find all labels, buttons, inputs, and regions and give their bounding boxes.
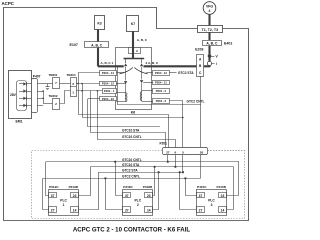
svg-text:T1, T2, T3: T1, T2, T3	[202, 28, 219, 32]
K6 left pole contact	[125, 58, 127, 63]
wire TB304-1 to P204-1	[76, 90, 102, 92]
wire P407 lower pins join	[37, 91, 43, 93]
wire P201-6 down	[175, 155, 177, 167]
connector P201	[163, 148, 208, 155]
svg-text:27: 27	[166, 150, 170, 154]
svg-text:2: 2	[55, 102, 57, 106]
wire P204-12 right GTC2 STA	[169, 72, 176, 74]
bus GTC2 CNTL	[43, 178, 201, 180]
wire bus tap to P201-26	[118, 66, 201, 147]
ground at TB601 wire	[47, 84, 49, 88]
svg-text:2: 2	[136, 49, 138, 53]
wire PLC1-23 to GTC10 STA	[79, 167, 91, 196]
svg-text:VFG: VFG	[206, 4, 213, 8]
svg-text:P318C: P318C	[123, 185, 133, 189]
svg-text:TB601: TB601	[49, 73, 58, 77]
wire PLC1-14 to GTC2 STA	[79, 172, 99, 209]
ACPC boundary box	[4, 8, 249, 221]
K6 contact bar	[124, 58, 145, 60]
wire row 114	[79, 73, 169, 147]
wire P204-3 right	[169, 101, 182, 148]
svg-text:2: 2	[137, 203, 139, 207]
svg-text:P415C: P415C	[197, 185, 207, 189]
wire P201-5 down	[182, 155, 184, 172]
pin P204-13	[100, 82, 117, 86]
wire PLC2-14 to GTC2 STA	[153, 172, 159, 209]
pin P204-3	[153, 99, 170, 104]
svg-text:P204 - 14: P204 - 14	[102, 71, 114, 75]
svg-text:P318B: P318B	[143, 185, 153, 189]
connector E203 A B C	[197, 55, 204, 77]
svg-text:P319C: P319C	[49, 185, 59, 189]
wire P201-26 down	[200, 155, 202, 178]
wire row 126	[88, 99, 161, 127]
svg-text:14: 14	[147, 208, 151, 212]
wire GTC10 CNTL to PLC1-37	[46, 162, 49, 196]
svg-text:A, B, C 1: A, B, C 1	[101, 61, 114, 65]
svg-text:26: 26	[200, 150, 204, 154]
K6 pin 2	[129, 48, 141, 54]
svg-text:27: 27	[51, 208, 55, 212]
svg-text:K6: K6	[131, 110, 136, 114]
wire P204-12 to contact	[146, 72, 152, 74]
svg-text:14: 14	[73, 208, 77, 212]
wire P204-14 left	[78, 72, 100, 74]
generator VFG	[203, 2, 216, 15]
relay K7	[127, 16, 139, 32]
svg-text:I: I	[216, 62, 217, 66]
K6 left aux contact	[125, 67, 127, 81]
svg-text:7: 7	[55, 81, 57, 85]
svg-text:P204 - 22: P204 - 22	[102, 97, 114, 101]
svg-text:GTC2 STA: GTC2 STA	[178, 71, 194, 75]
svg-text:23: 23	[147, 194, 151, 198]
svg-text:P204 - 2: P204 - 2	[156, 89, 167, 93]
wire GTC10 STA upper	[91, 91, 166, 147]
wire GTC2 CNTL to PLC3-37	[186, 178, 197, 195]
wire K3 to E107	[97, 30, 99, 42]
wire E401 down	[208, 46, 210, 67]
pin P204-2	[153, 89, 170, 94]
svg-text:P204 - 3: P204 - 3	[156, 99, 167, 103]
wire GTC10 CNTL to PLC3-23	[227, 162, 239, 196]
wire P204-22 left	[88, 98, 100, 100]
wire GTC10 CNTL upper	[98, 91, 176, 147]
K6 right coil	[141, 91, 143, 101]
wire GTC10 CNTL to PLC2-37	[116, 162, 123, 196]
diodes CR1-CR4	[19, 83, 23, 85]
connector P407	[32, 79, 38, 113]
svg-text:GTC10 STA: GTC10 STA	[122, 129, 140, 133]
svg-text:P407: P407	[33, 75, 41, 79]
wire P407 pin1 to TB601	[37, 83, 52, 85]
connector E401 A B C	[203, 41, 222, 46]
wire GTC2 STA to PLC3-27	[180, 172, 197, 209]
pin P204-14	[100, 71, 117, 76]
current sensor I	[207, 61, 211, 65]
wire P204-11 to aux	[143, 82, 152, 84]
svg-text:14: 14	[221, 208, 225, 212]
wire VFG to T1	[208, 14, 210, 25]
wire P204-2 to coil	[142, 90, 153, 92]
connector E107 A B C	[85, 42, 109, 48]
svg-text:GTC2 CNTL: GTC2 CNTL	[187, 99, 205, 103]
svg-text:E107: E107	[70, 43, 78, 47]
wire P201-26 dashed out	[208, 150, 245, 152]
svg-text:P204 - 12: P204 - 12	[155, 71, 167, 75]
pin P204-11	[153, 81, 170, 85]
svg-text:1: 1	[63, 203, 65, 207]
wire TB304-3 to P204-13	[76, 83, 99, 85]
voltage tap V	[208, 54, 212, 58]
pin P204-22	[100, 97, 117, 101]
wire E203 to V-line	[204, 65, 210, 67]
wire TB202 to TB304	[60, 91, 70, 104]
wire E203-C down	[200, 76, 202, 105]
svg-text:37: 37	[125, 194, 129, 198]
diode group bracket	[17, 81, 27, 111]
wire GTC2 CNTL to PLC2-27	[106, 178, 123, 209]
svg-text:EM1: EM1	[16, 120, 23, 124]
box EM1	[9, 71, 32, 119]
svg-text:P319B: P319B	[69, 185, 79, 189]
svg-text:23: 23	[73, 194, 77, 198]
wire GTC2 CNTL to PLC1-27	[43, 178, 49, 209]
terminal block T1 T2 T3	[198, 26, 223, 33]
wire K7 to K6 pin2	[132, 31, 134, 58]
contactor K6 box	[116, 48, 152, 110]
wire P204-13 to aux	[116, 83, 125, 85]
svg-text:P204 - 1: P204 - 1	[104, 89, 115, 93]
svg-text:P201: P201	[160, 142, 168, 146]
wire to TB202	[43, 103, 52, 105]
svg-text:ACPC: ACPC	[2, 1, 15, 6]
svg-text:27: 27	[125, 208, 129, 212]
svg-text:27: 27	[199, 208, 203, 212]
pin P204-1	[103, 89, 117, 94]
svg-text:P204 - 11: P204 - 11	[155, 81, 167, 85]
svg-text:GTC2 CNTL: GTC2 CNTL	[122, 174, 140, 178]
svg-text:A, B, C: A, B, C	[206, 42, 218, 46]
svg-text:3: 3	[72, 82, 74, 86]
svg-text:28V: 28V	[10, 93, 17, 97]
svg-text:P415B: P415B	[217, 185, 227, 189]
bus GTC10 STA	[90, 166, 233, 168]
svg-text:E401: E401	[224, 41, 232, 45]
svg-text:K3: K3	[97, 21, 101, 25]
svg-text:37: 37	[51, 194, 55, 198]
svg-text:K7: K7	[131, 22, 135, 26]
svg-text:6: 6	[175, 150, 177, 154]
bus GTC2 STA	[98, 172, 183, 174]
wire GTC10 STA to PLC3-14	[227, 167, 234, 210]
svg-text:4: 4	[209, 9, 211, 13]
wire PLC2-23 to GTC10 STA	[153, 167, 155, 196]
wire row 117	[83, 84, 183, 118]
svg-text:A, B, C: A, B, C	[91, 43, 103, 47]
pin P204-12	[153, 71, 170, 76]
svg-text:3: 3	[211, 203, 213, 207]
wire P201-27 down	[167, 155, 169, 162]
svg-text:1: 1	[72, 91, 74, 95]
svg-text:P204 - 13: P204 - 13	[102, 82, 114, 86]
bus phase right	[144, 65, 197, 67]
svg-text:A, B, C: A, B, C	[137, 38, 148, 42]
svg-text:5: 5	[182, 150, 184, 154]
wire P204-1 to coil	[116, 92, 125, 94]
K6 right pole contact	[141, 58, 143, 63]
wire P204-22 to coil	[116, 101, 125, 103]
bus GTC10 CNTL	[46, 161, 239, 163]
svg-text:E203: E203	[195, 47, 203, 51]
relay K3	[95, 16, 105, 30]
wire E107 down	[97, 48, 99, 67]
svg-text:23: 23	[221, 194, 225, 198]
svg-text:GTC2 STA: GTC2 STA	[122, 168, 138, 172]
svg-text:TB304: TB304	[67, 73, 76, 77]
dashed boundary box	[32, 151, 245, 219]
K6 left coil	[125, 92, 127, 101]
wire P204-3 to coil	[142, 101, 153, 103]
svg-text:ACPC GTC 2 - 10 CONTACTOR - K6: ACPC GTC 2 - 10 CONTACTOR - K6 FAIL	[73, 227, 191, 234]
wire P204-14 to contact	[116, 72, 124, 74]
svg-text:3 A, B, C: 3 A, B, C	[146, 61, 159, 65]
wire T1 to E401	[208, 32, 210, 40]
bus phase A left	[98, 65, 124, 67]
K6 right aux contact	[141, 67, 143, 80]
svg-text:37: 37	[199, 194, 203, 198]
svg-text:GTC10 CNTL: GTC10 CNTL	[122, 135, 142, 139]
wire TB601 to TB304	[60, 83, 70, 85]
svg-text:TB202: TB202	[49, 94, 58, 98]
